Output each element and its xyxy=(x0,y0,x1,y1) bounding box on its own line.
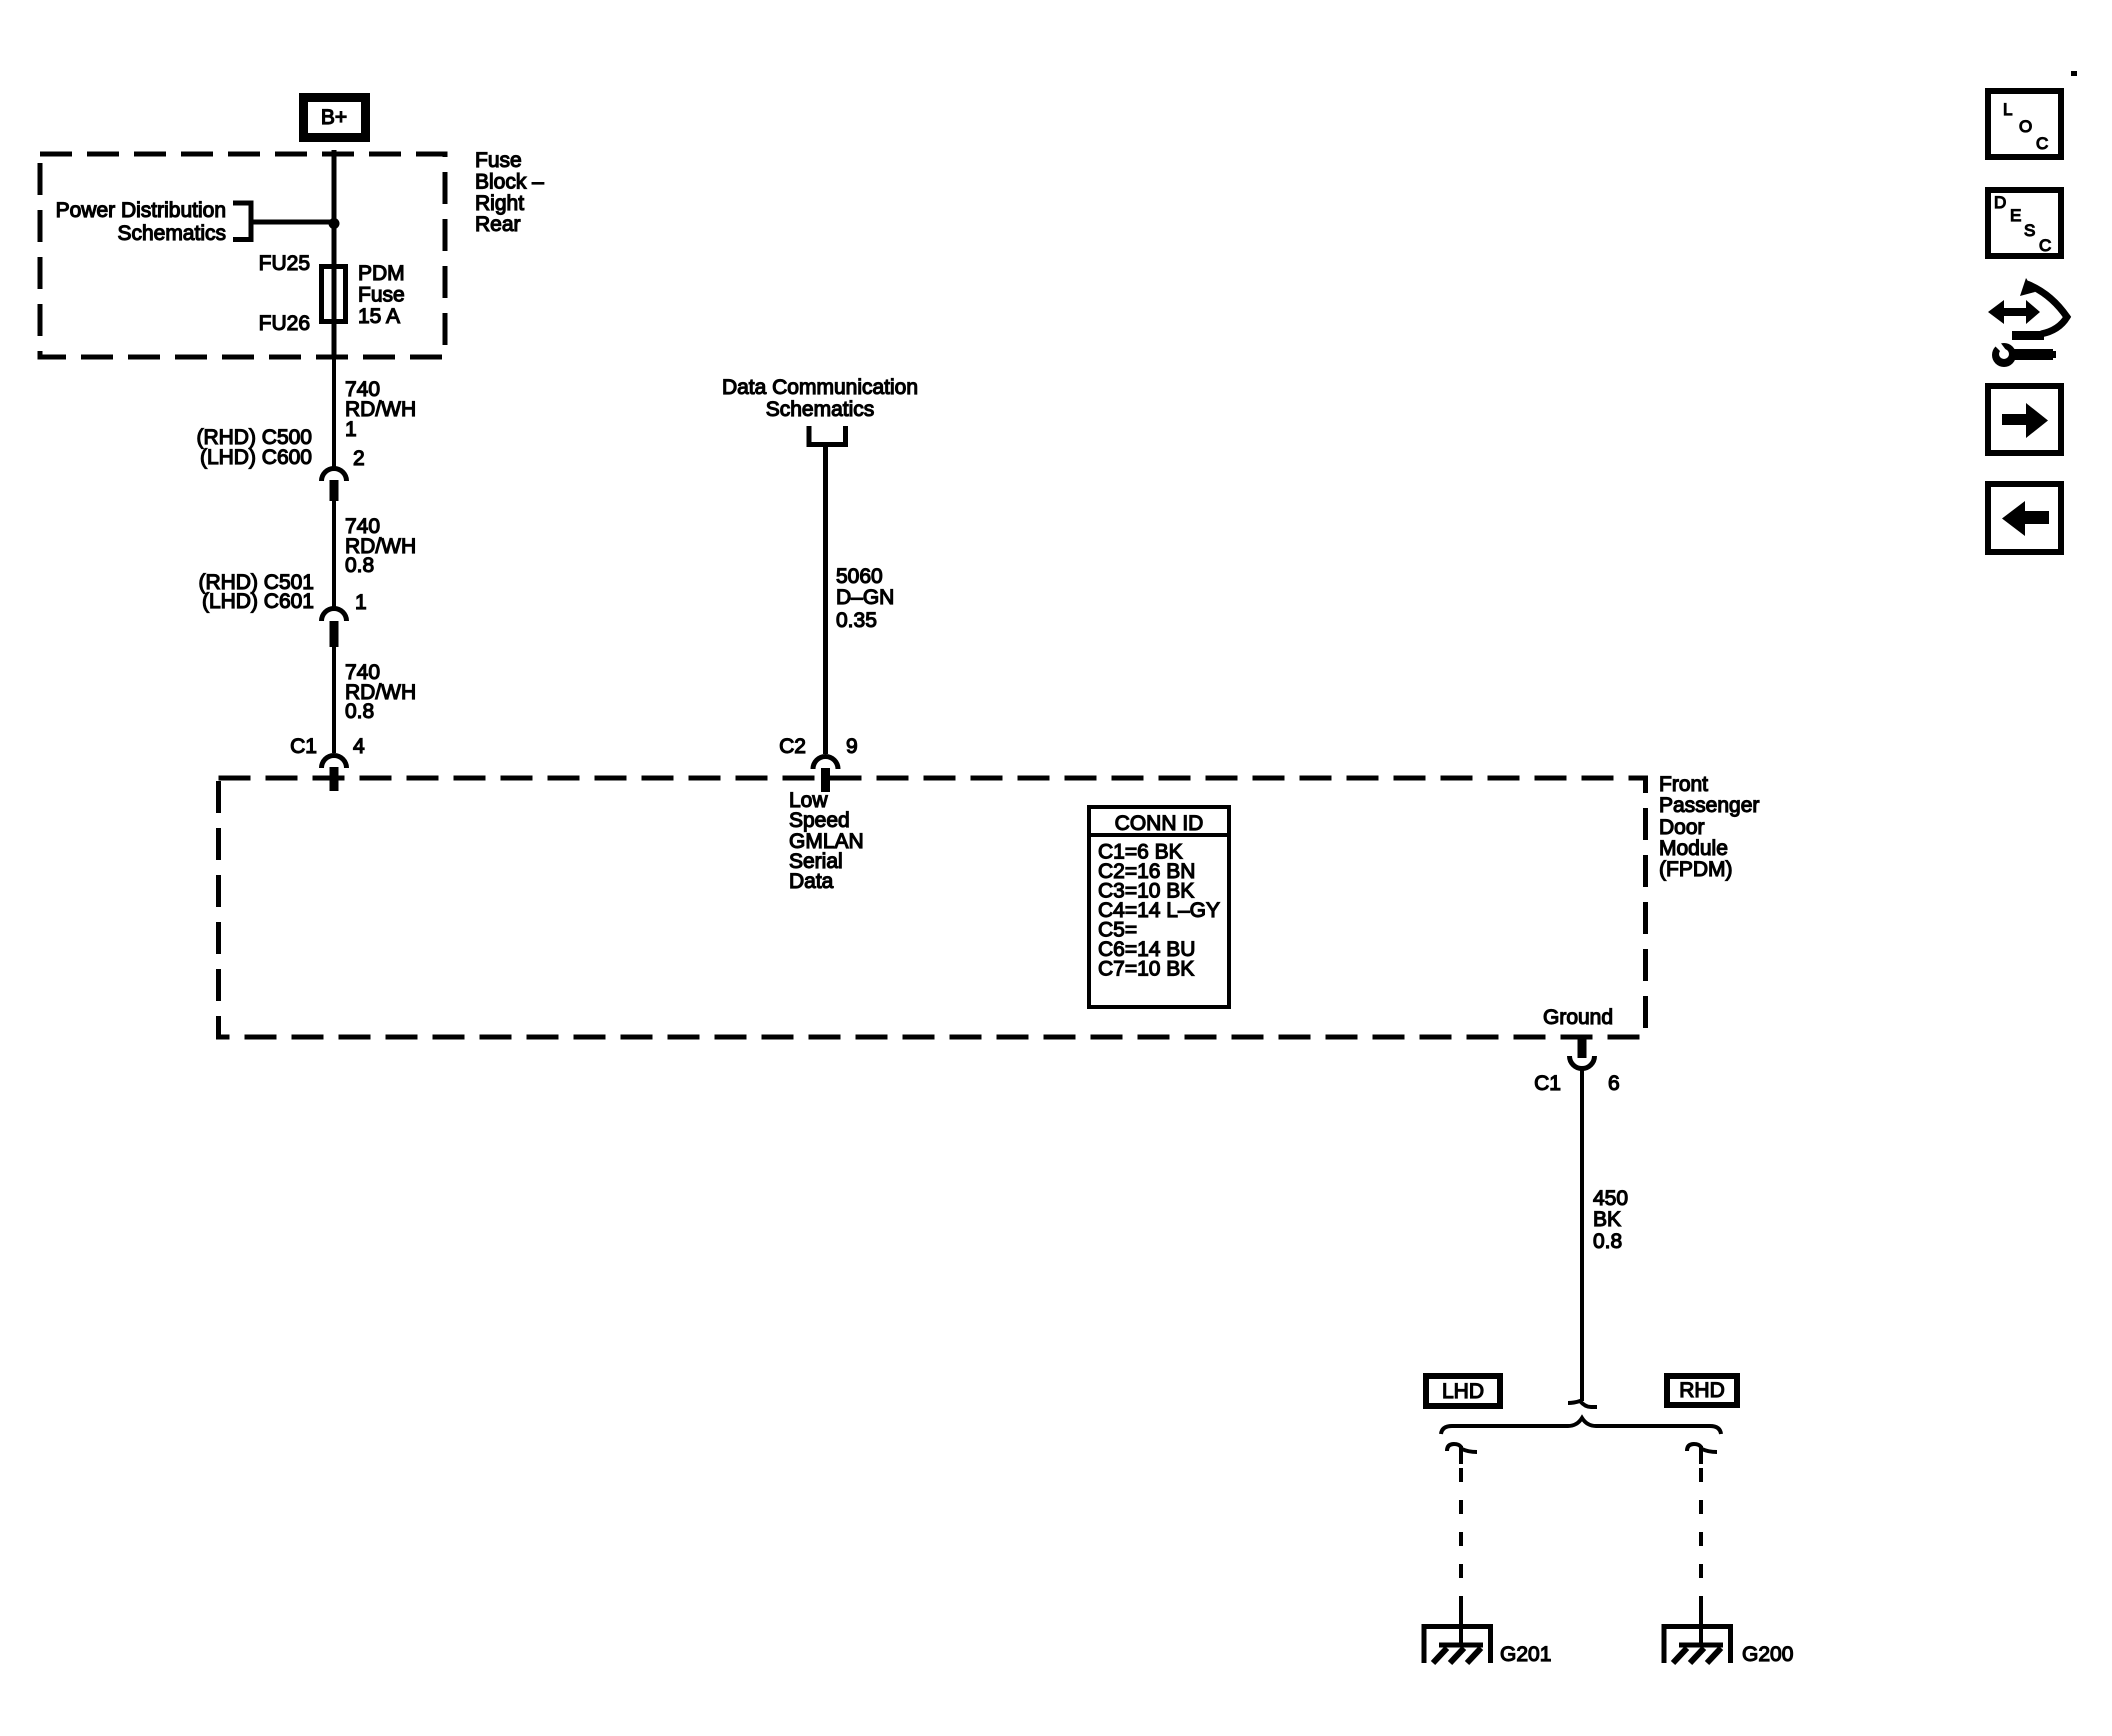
label PDM Fuse 15 A xyxy=(358,262,405,328)
module entry connector C2 pin 9 xyxy=(813,757,838,793)
wire from bracket to junction xyxy=(253,220,334,225)
label Fuse Block - Right Rear xyxy=(475,149,544,236)
svg-text:0.35: 0.35 xyxy=(836,609,877,632)
svg-text:2: 2 xyxy=(353,447,365,470)
svg-text:RHD: RHD xyxy=(1679,1379,1725,1402)
svg-text:4: 4 xyxy=(353,735,365,758)
svg-text:D–GN: D–GN xyxy=(836,586,894,609)
svg-text:G200: G200 xyxy=(1742,1643,1793,1666)
label Data Communication Schematics xyxy=(722,376,918,421)
svg-text:O: O xyxy=(2019,117,2032,136)
module entry connector C1 pin 4 xyxy=(322,756,347,792)
junction node xyxy=(329,218,340,229)
svg-text:Data Communication: Data Communication xyxy=(722,376,918,399)
svg-text:0.8: 0.8 xyxy=(345,554,374,577)
label (RHD) C501 (LHD) C601 xyxy=(198,571,314,613)
split brace xyxy=(1441,1418,1721,1434)
label Low Speed GMLAN Serial Data xyxy=(789,789,864,893)
sidebar LOC button xyxy=(1988,91,2061,157)
inline connector C501/C601 xyxy=(322,609,347,648)
FPDM module dashed box xyxy=(219,778,1646,1037)
svg-text:Front: Front xyxy=(1659,773,1708,796)
svg-text:C: C xyxy=(2039,236,2051,255)
svg-text:5060: 5060 xyxy=(836,565,883,588)
label 740 RD/WH 0.8 xyxy=(345,515,416,577)
curved outline shape xyxy=(2027,284,2067,334)
LHD box xyxy=(1426,1376,1500,1406)
svg-text:Passenger: Passenger xyxy=(1659,794,1759,817)
svg-text:E: E xyxy=(2010,206,2021,225)
svg-text:D: D xyxy=(1994,193,2006,212)
svg-text:Schematics: Schematics xyxy=(766,398,875,421)
wire end splice curl xyxy=(1568,1401,1597,1407)
svg-text:Data: Data xyxy=(789,870,834,893)
ground G201 xyxy=(1424,1608,1491,1663)
label 740 RD/WH 1 xyxy=(345,378,416,441)
svg-text:C2: C2 xyxy=(779,735,806,758)
bracket (power distribution ref) xyxy=(233,203,251,240)
label Power Distribution Schematics xyxy=(56,199,226,245)
svg-text:15 A: 15 A xyxy=(358,305,400,328)
module exit connector C1 pin 6 xyxy=(1570,1039,1595,1069)
svg-text:Right: Right xyxy=(475,192,524,215)
svg-text:Ground: Ground xyxy=(1543,1006,1613,1029)
sidebar swap/wrench icon xyxy=(1988,278,2067,367)
svg-text:L: L xyxy=(2003,100,2012,119)
svg-text:1: 1 xyxy=(355,591,367,614)
svg-text:Door: Door xyxy=(1659,816,1705,839)
fuse FU25/FU26 PDM xyxy=(322,267,346,322)
wire 740 segment 2 xyxy=(332,501,336,607)
svg-text:(LHD) C600: (LHD) C600 xyxy=(200,446,312,469)
wrench xyxy=(2014,349,2053,360)
wire 450 xyxy=(1580,1070,1584,1401)
sidebar DESC button xyxy=(1988,190,2061,256)
svg-text:(LHD) C601: (LHD) C601 xyxy=(202,590,314,613)
inline connector C500/C600 xyxy=(322,469,347,502)
svg-text:G201: G201 xyxy=(1500,1643,1551,1666)
wire 740 segment 1 xyxy=(332,356,336,467)
ground G200 xyxy=(1664,1608,1731,1663)
svg-text:FU26: FU26 xyxy=(259,312,310,335)
RHD box xyxy=(1667,1376,1737,1405)
LHD dashed ground wire xyxy=(1459,1468,1463,1626)
B+ supply box xyxy=(304,98,366,138)
svg-text:450: 450 xyxy=(1593,1187,1628,1210)
svg-text:0.8: 0.8 xyxy=(345,700,374,723)
svg-text:C1: C1 xyxy=(290,735,317,758)
bracket (data comm ref) xyxy=(809,426,846,445)
svg-text:C7=10 BK: C7=10 BK xyxy=(1098,958,1194,981)
svg-text:C1: C1 xyxy=(1534,1072,1561,1095)
svg-text:9: 9 xyxy=(846,735,858,758)
wire 5060 xyxy=(823,446,828,754)
label (RHD) C500 (LHD) C600 xyxy=(196,426,312,469)
double arrow xyxy=(1988,300,2040,324)
RHD branch connector hook xyxy=(1687,1444,1717,1464)
svg-text:B+: B+ xyxy=(321,106,347,129)
svg-text:(FPDM): (FPDM) xyxy=(1659,858,1732,881)
RHD dashed ground wire xyxy=(1699,1468,1703,1626)
LHD branch connector hook xyxy=(1447,1444,1477,1464)
svg-text:S: S xyxy=(2024,221,2035,240)
label 740 RD/WH 0.8 (second) xyxy=(345,661,416,723)
svg-text:PDM: PDM xyxy=(358,262,405,285)
svg-text:0.8: 0.8 xyxy=(1593,1230,1622,1253)
stray mark xyxy=(2071,71,2077,76)
svg-text:1: 1 xyxy=(345,418,357,441)
svg-text:Module: Module xyxy=(1659,837,1728,860)
wire B+ feed xyxy=(332,150,337,356)
svg-text:Speed: Speed xyxy=(789,809,850,832)
svg-text:Fuse: Fuse xyxy=(358,284,405,307)
svg-text:Power Distribution: Power Distribution xyxy=(56,199,226,222)
label 450 BK 0.8 xyxy=(1593,1187,1628,1253)
svg-text:C: C xyxy=(2036,134,2048,153)
label Front Passenger Door Module (FPDM) xyxy=(1659,773,1759,881)
svg-text:Rear: Rear xyxy=(475,213,521,236)
svg-text:LHD: LHD xyxy=(1442,1380,1484,1403)
svg-text:Fuse: Fuse xyxy=(475,149,522,172)
fuse block dashed box xyxy=(40,154,445,357)
svg-text:FU25: FU25 xyxy=(259,252,310,275)
svg-text:6: 6 xyxy=(1608,1072,1620,1095)
svg-text:Block –: Block – xyxy=(475,171,544,194)
sidebar back arrow button xyxy=(1988,484,2061,552)
sidebar next arrow button xyxy=(1988,386,2061,453)
wire 740 segment 3 xyxy=(332,647,336,753)
CONN ID table xyxy=(1089,807,1229,1007)
label 5060 D-GN 0.35 xyxy=(836,565,894,632)
svg-text:BK: BK xyxy=(1593,1208,1621,1231)
svg-text:CONN ID: CONN ID xyxy=(1115,812,1204,835)
svg-text:Schematics: Schematics xyxy=(117,222,226,245)
